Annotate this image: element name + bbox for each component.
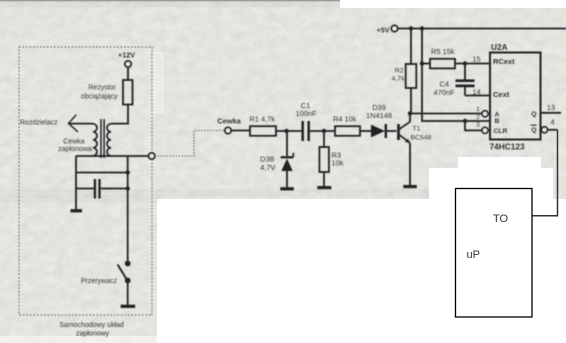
zener diode D3B 4,7V (260, 131, 293, 187)
diode D39 1N4148 (366, 103, 396, 138)
node junction (420, 26, 424, 30)
svg-text:100nF: 100nF (296, 109, 317, 118)
switch Przerywacz (81, 261, 131, 285)
svg-text:U2A: U2A (491, 42, 508, 52)
svg-text:Cewka: Cewka (217, 117, 241, 126)
node junction (420, 61, 424, 65)
svg-text:4,7V: 4,7V (260, 163, 275, 172)
wire CLR (465, 121, 482, 130)
ground (71, 209, 83, 212)
bubble CLR input (482, 127, 488, 133)
svg-text:+5V: +5V (377, 26, 390, 35)
svg-text:74HC123: 74HC123 (490, 142, 525, 152)
svg-text:Rozdzielacz: Rozdzielacz (20, 120, 58, 127)
svg-text:R1 4,7k: R1 4,7k (250, 115, 276, 124)
transistor T1 BC548 (399, 114, 432, 186)
+12V terminal (118, 51, 135, 68)
svg-text:14: 14 (472, 88, 480, 97)
bubble A input (482, 111, 488, 117)
ignition box dashed border (19, 47, 152, 315)
wire (310, 130, 335, 132)
svg-text:obciążający: obciążający (81, 94, 118, 101)
node line coil bottom (76, 155, 149, 157)
node junction (126, 170, 130, 174)
microprocessor uP box (456, 189, 533, 318)
wire (360, 130, 371, 132)
svg-text:10k: 10k (332, 159, 344, 168)
wire (127, 283, 129, 305)
transformer ignition coil (93, 119, 111, 158)
svg-text:Q: Q (531, 127, 536, 134)
label Cewka zaplonowa (58, 139, 92, 154)
wire lower horizontal (76, 172, 128, 174)
node Cewka (217, 117, 241, 134)
+5V terminal (377, 25, 398, 34)
svg-text:zapłonowy: zapłonowy (76, 331, 110, 338)
node collector junction (408, 111, 412, 115)
svg-text:2: 2 (476, 114, 480, 121)
resistor R4 (333, 115, 360, 136)
IC U2A 74HC123 monostable (490, 42, 541, 152)
ground (403, 185, 417, 188)
ground (121, 305, 136, 308)
svg-text:3: 3 (476, 122, 480, 129)
capacitor C1 (296, 101, 317, 141)
svg-text:R2: R2 (395, 68, 404, 75)
svg-text:zapłonowa: zapłonowa (58, 146, 92, 153)
resistor R1 (250, 115, 277, 136)
svg-text:1N4148: 1N4148 (366, 111, 392, 120)
wire primary vertical (127, 156, 129, 261)
wire to ground (75, 189, 77, 210)
svg-text:1: 1 (476, 106, 480, 113)
bubble Q-bar output pin 4 (542, 118, 558, 133)
wire Q-bar to uP (digital) (532, 130, 558, 216)
node junction (284, 129, 288, 133)
capacitor C4 (434, 64, 490, 98)
wire collector to A (410, 113, 482, 115)
ground (317, 186, 331, 189)
svg-text:Cext: Cext (493, 90, 510, 99)
node junction (126, 186, 130, 190)
node junction (322, 129, 326, 133)
svg-text:4,7k: 4,7k (392, 76, 405, 83)
svg-text:15: 15 (472, 55, 480, 64)
svg-text:R4 10k: R4 10k (333, 115, 357, 124)
wire (276, 130, 301, 132)
svg-text:B: B (495, 118, 500, 125)
node junction (463, 61, 467, 65)
svg-text:Cewka: Cewka (63, 139, 85, 146)
node junction B/CLR tie (463, 119, 467, 123)
arrow to Rozdzielacz (69, 115, 94, 132)
white patches over scan (340, 0, 566, 8)
capacitor condenser (76, 179, 128, 199)
svg-text:Rezystor: Rezystor (88, 85, 116, 92)
svg-text:470nF: 470nF (434, 88, 455, 97)
svg-text:uP: uP (467, 249, 480, 261)
wire +5V rail (398, 28, 566, 30)
label Samochodowy uklad zaplonowy (59, 322, 124, 338)
svg-text:4: 4 (550, 118, 554, 127)
wire (127, 67, 129, 80)
wire B/CLR feed (422, 29, 490, 122)
svg-text:Q: Q (531, 111, 536, 118)
node junction (409, 26, 413, 30)
ground (280, 187, 294, 190)
wire left vertical (75, 156, 77, 189)
subtle scan shading (0, 0, 345, 1)
resistor Rezystor obciazajacy (81, 80, 133, 105)
resistor R5 (422, 47, 490, 68)
svg-text:Przerywacz: Przerywacz (81, 278, 118, 285)
dotted link wire (155, 131, 225, 157)
svg-text:BC548: BC548 (411, 135, 432, 142)
svg-text:T1: T1 (413, 126, 421, 133)
wire (111, 105, 128, 124)
svg-text:Samochodowy układ: Samochodowy układ (59, 322, 124, 329)
svg-text:+12V: +12V (118, 51, 135, 60)
pin 13 output Q (541, 103, 561, 113)
wire (231, 130, 250, 132)
resistor R3 (319, 131, 343, 186)
svg-text:RCext: RCext (493, 57, 515, 66)
resistor R2 (392, 29, 417, 114)
svg-text:R5 15k: R5 15k (431, 47, 455, 56)
svg-text:CLR: CLR (494, 128, 508, 135)
terminal node on box edge (149, 153, 155, 159)
svg-text:13: 13 (547, 103, 555, 112)
svg-text:TO: TO (493, 213, 509, 225)
